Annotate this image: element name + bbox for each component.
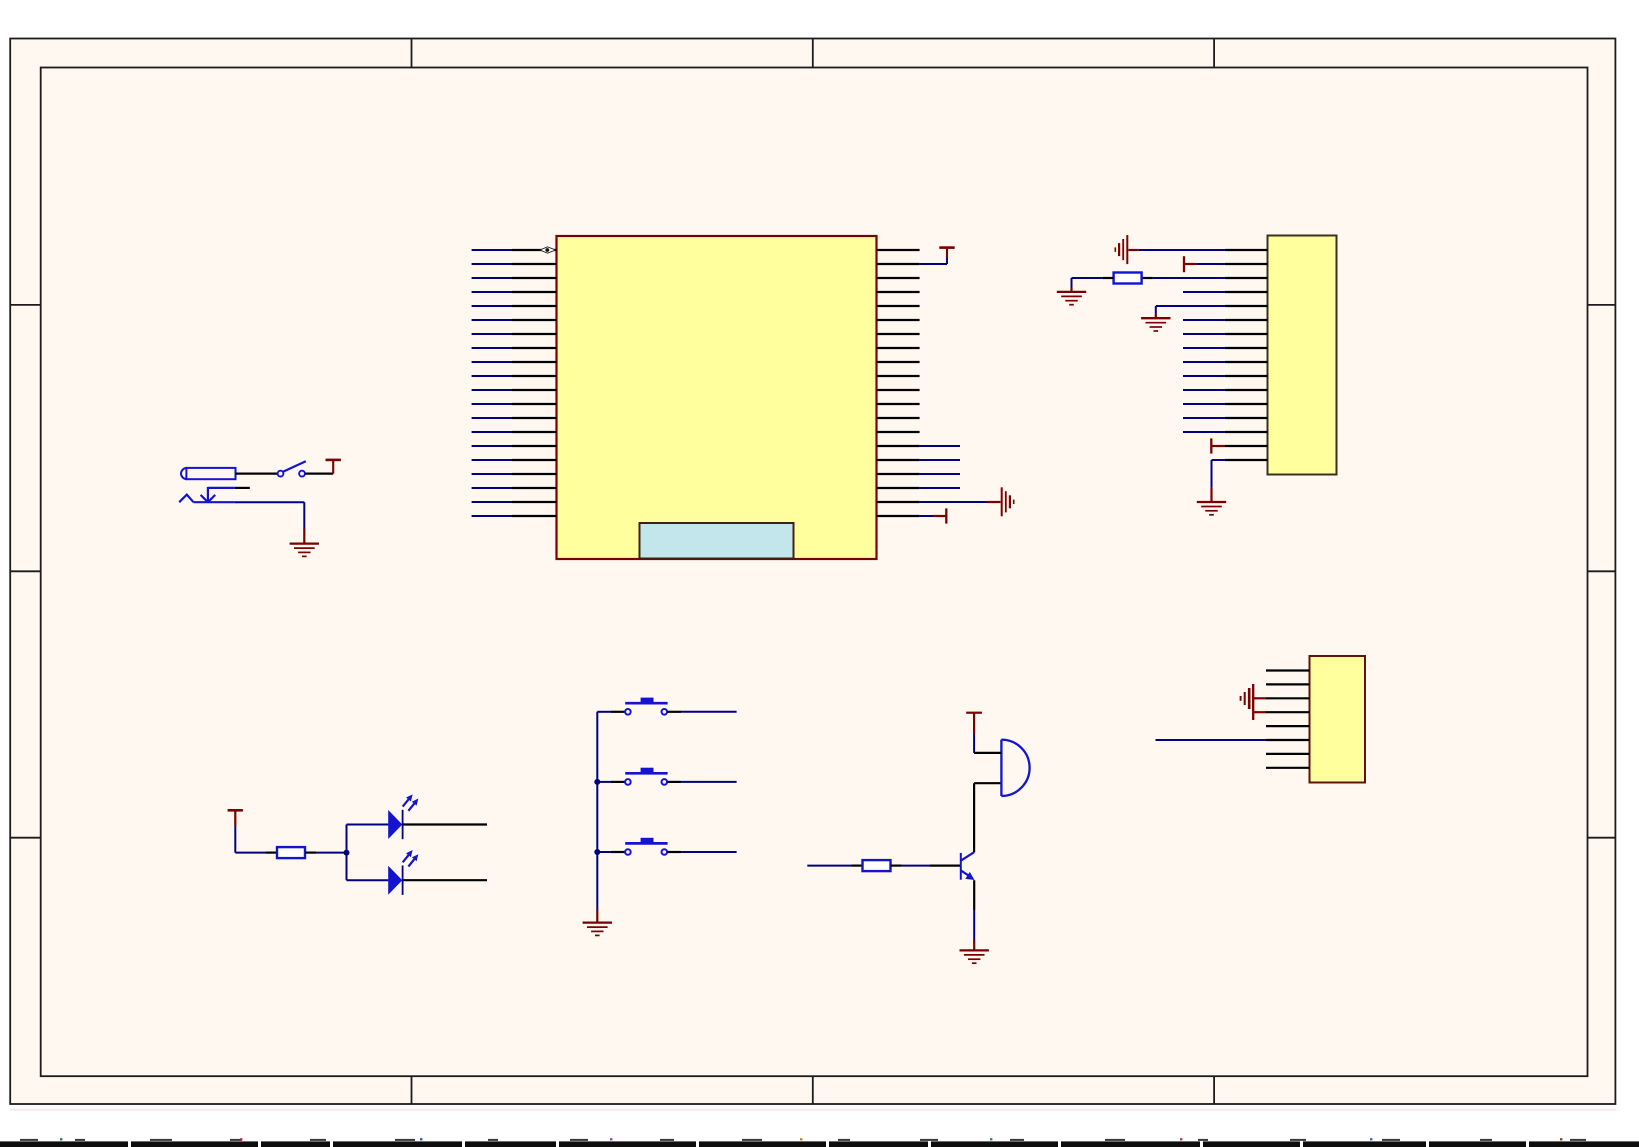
LED D2 xyxy=(388,848,421,895)
connector J3 body xyxy=(1310,656,1366,783)
J2 pin 13 xyxy=(1225,417,1268,419)
buzzer LS1 xyxy=(1001,740,1029,796)
wire U1 left pin 6 net xyxy=(472,319,512,321)
LED D1 xyxy=(388,792,421,839)
wire U1 left pin 16 net xyxy=(472,459,512,461)
wire U1 left pin 20 net xyxy=(472,515,512,517)
U1 pin 40 (right) xyxy=(877,515,920,517)
power bar VCC right of U1 xyxy=(939,248,954,258)
wire U1 left pin 15 net xyxy=(472,445,512,447)
jack tip contact with arrow xyxy=(201,487,235,502)
J2 pin 2 xyxy=(1225,263,1268,265)
wire U1 pin 40 to power bar xyxy=(920,515,939,517)
jack spring contact zigzag xyxy=(179,495,235,503)
wire to button S1 xyxy=(597,711,625,713)
U1 pin 23 (right) xyxy=(877,277,920,279)
U1 pin 5 (left) xyxy=(512,305,557,307)
wire J2 pin 9 net xyxy=(1183,361,1225,363)
resistor R2 xyxy=(277,847,305,858)
U1 pin 33 (right) xyxy=(877,417,920,419)
wire to button S3 xyxy=(597,851,625,853)
ground GND jack xyxy=(290,544,319,557)
J2 pin 6 xyxy=(1225,319,1268,321)
node button junction 1 xyxy=(594,779,600,785)
pin jack tip stub xyxy=(235,487,250,489)
U1 crystal sub-block xyxy=(640,523,794,559)
wire U1 left pin 14 net xyxy=(472,431,512,433)
ground GND emitter xyxy=(960,950,989,963)
wire U1 left pin 13 net xyxy=(472,417,512,419)
J3 pin 7 xyxy=(1266,753,1310,755)
pushbutton S2 xyxy=(625,768,667,785)
power bar VCC buzzer xyxy=(966,712,982,714)
U1 pin 1 (left) xyxy=(512,249,557,251)
J2 pin 5 xyxy=(1225,305,1268,307)
wire R3 to Q1 base xyxy=(891,864,961,866)
wire jack sleeve to switch xyxy=(236,473,278,475)
J2 pin 12 xyxy=(1225,403,1268,405)
U1 pin 29 (right) xyxy=(877,361,920,363)
U1 pin 17 (left) xyxy=(512,473,557,475)
wire J2 pin 1 to earth xyxy=(1129,249,1226,251)
connector J2 body xyxy=(1268,236,1337,475)
wire base input xyxy=(807,865,862,867)
wire button S1 output xyxy=(667,711,736,713)
U1 pin 39 (right) xyxy=(877,501,920,503)
U1 pin 27 (right) xyxy=(877,333,920,335)
J2 pin 10 xyxy=(1225,375,1268,377)
resistor R3 xyxy=(863,860,891,871)
wire U1 left pin 1 net xyxy=(472,249,512,251)
node LED junction xyxy=(344,850,350,856)
U1 pin 32 (right) xyxy=(877,403,920,405)
U1 pin 21 (right) xyxy=(877,249,920,251)
wire J2 pin 3 to resistor R1 xyxy=(1142,277,1225,279)
wire U1 right net 4 xyxy=(920,487,960,489)
J2 pin 15 xyxy=(1225,445,1268,447)
wire Q1 collector to buzzer xyxy=(974,783,1001,852)
ground GND at J2 pin 5 xyxy=(1141,318,1170,331)
J2 pin 16 xyxy=(1225,459,1268,461)
wire U1 right net 3 xyxy=(920,473,960,475)
U1 pin 14 (left) xyxy=(512,431,557,433)
pin D1 cathode stub xyxy=(403,823,487,825)
power bar VCC LED branch xyxy=(228,810,243,826)
wire switch to power xyxy=(305,473,333,475)
node pin-1 marker diamond xyxy=(540,247,556,253)
J3 pin 4 xyxy=(1266,711,1310,713)
U1 pin 37 (right) xyxy=(877,473,920,475)
wire U1 left pin 17 net xyxy=(472,473,512,475)
wire J3 pin 6 net xyxy=(1156,739,1267,741)
wire J2 pin 7 net xyxy=(1183,333,1225,335)
U1 pin 12 (left) xyxy=(512,403,557,405)
wire U1 right net 2 xyxy=(920,459,960,461)
connector J1 jack barrel xyxy=(181,468,235,479)
J2 pin 11 xyxy=(1225,389,1268,391)
J2 pin 9 xyxy=(1225,361,1268,363)
U1 pin 16 (left) xyxy=(512,459,557,461)
J3 pin 8 xyxy=(1266,767,1310,769)
ground earth at J3 xyxy=(1241,684,1254,720)
J3 pin 6 xyxy=(1266,739,1310,741)
U1 pin 9 (left) xyxy=(512,361,557,363)
U1 pin 31 (right) xyxy=(877,389,920,391)
U1 pin 11 (left) xyxy=(512,389,557,391)
J2 pin 8 xyxy=(1225,347,1268,349)
wire button S3 output xyxy=(667,851,736,853)
power bar (side) at U1 pin 40 xyxy=(939,508,946,523)
U1 pin 19 (left) xyxy=(512,501,557,503)
wire U1 left pin 8 net xyxy=(472,347,512,349)
wire U1 left pin 4 net xyxy=(472,291,512,293)
power bar VCC at switch xyxy=(326,460,341,474)
wire R2 to LED junction xyxy=(305,851,347,853)
wire U1 left pin 11 net xyxy=(472,389,512,391)
transistor Q1 xyxy=(961,852,975,880)
wire J2 pin 11 net xyxy=(1183,389,1225,391)
wire buzzer to VCC xyxy=(974,713,1001,753)
pushbutton S1 xyxy=(625,698,667,715)
U1 pin 36 (right) xyxy=(877,459,920,461)
U1 pin 28 (right) xyxy=(877,347,920,349)
wire J2 pin 13 net xyxy=(1183,417,1225,419)
U1 pin 22 (right) xyxy=(877,263,920,265)
U1 pin 15 (left) xyxy=(512,445,557,447)
wire J2 pin 14 net xyxy=(1183,431,1225,433)
wire U1 left pin 10 net xyxy=(472,375,512,377)
pushbutton S3 xyxy=(625,838,667,855)
U1 pin 6 (left) xyxy=(512,319,557,321)
wire J2 pin 2 to power bar xyxy=(1185,263,1225,265)
wire J2 pin 8 net xyxy=(1183,347,1225,349)
J2 pin 7 xyxy=(1225,333,1268,335)
J2 pin 14 xyxy=(1225,431,1268,433)
J3 pin 1 xyxy=(1266,669,1310,671)
U1 pin 30 (right) xyxy=(877,375,920,377)
J2 pin 3 xyxy=(1225,277,1268,279)
pin D2 cathode stub xyxy=(403,879,487,881)
wire U1 pin 22 to VCC xyxy=(920,256,947,264)
wire U1 left pin 5 net xyxy=(472,305,512,307)
wire J2 pin 4 xyxy=(1183,291,1225,293)
U1 pin 18 (left) xyxy=(512,487,557,489)
U1 pin 20 (left) xyxy=(512,515,557,517)
wire Q1 emitter to ground xyxy=(973,880,975,950)
power bar (side) at J2 pin 15 xyxy=(1211,438,1225,453)
ground GND at J2 pin 16 xyxy=(1197,502,1226,515)
J3 pin 3 xyxy=(1266,697,1310,699)
wire U1 left pin 18 net xyxy=(472,487,512,489)
J3 pin 2 xyxy=(1266,683,1310,685)
wire R1 to ground xyxy=(1072,278,1114,292)
wire J2 pin 6 net xyxy=(1183,319,1225,321)
wire buttons common rail xyxy=(596,712,598,923)
U1 pin 3 (left) xyxy=(512,277,557,279)
switch SW1 xyxy=(278,461,306,476)
J2 pin 1 xyxy=(1225,249,1268,251)
U1 pin 13 (left) xyxy=(512,417,557,419)
wire VCC to R2 xyxy=(235,827,277,853)
wire J2 pin 12 net xyxy=(1183,403,1225,405)
wire jack sleeve to ground xyxy=(235,502,304,543)
U1 pin 24 (right) xyxy=(877,291,920,293)
power bar (side) at J2 pin 2 xyxy=(1183,256,1185,272)
wire U1 left pin 19 net xyxy=(472,501,512,503)
resistor R1 xyxy=(1114,273,1142,284)
ground earth right of U1 xyxy=(1002,487,1014,516)
wire U1 left pin 12 net xyxy=(472,403,512,405)
J3 pin 5 xyxy=(1266,725,1310,727)
J2 pin 4 xyxy=(1225,291,1268,293)
wire J2 pin 10 net xyxy=(1183,375,1225,377)
wire J2 pin 5 to ground xyxy=(1156,306,1225,318)
U1 pin 26 (right) xyxy=(877,319,920,321)
U1 pin 34 (right) xyxy=(877,431,920,433)
wire junction to LED anodes xyxy=(347,825,389,881)
U1 pin 2 (left) xyxy=(512,263,557,265)
ground GND buttons xyxy=(583,923,612,936)
U1 pin 7 (left) xyxy=(512,333,557,335)
wire to button S2 xyxy=(597,781,625,783)
U1 pin 8 (left) xyxy=(512,347,557,349)
U1 pin 38 (right) xyxy=(877,487,920,489)
wire U1 left pin 2 net xyxy=(472,263,512,265)
op-amp U1 MCU body xyxy=(557,236,877,559)
U1 pin 10 (left) xyxy=(512,375,557,377)
wire button S2 output xyxy=(667,781,736,783)
U1 pin 4 (left) xyxy=(512,291,557,293)
ground GND at R1 xyxy=(1057,292,1086,305)
ground earth at J2 pin 1 xyxy=(1115,235,1127,264)
node button junction 2 xyxy=(594,849,600,855)
wire J3 pins 3-4 to earth xyxy=(1254,698,1266,712)
wire U1 left pin 3 net xyxy=(472,277,512,279)
wire U1 left pin 7 net xyxy=(472,333,512,335)
wire U1 pin 39 to earth xyxy=(920,501,1001,503)
wire U1 left pin 9 net xyxy=(472,361,512,363)
wire U1 right net 1 xyxy=(920,445,960,447)
wire J2 pin 16 to ground xyxy=(1212,460,1226,502)
U1 pin 35 (right) xyxy=(877,445,920,447)
U1 pin 25 (right) xyxy=(877,305,920,307)
